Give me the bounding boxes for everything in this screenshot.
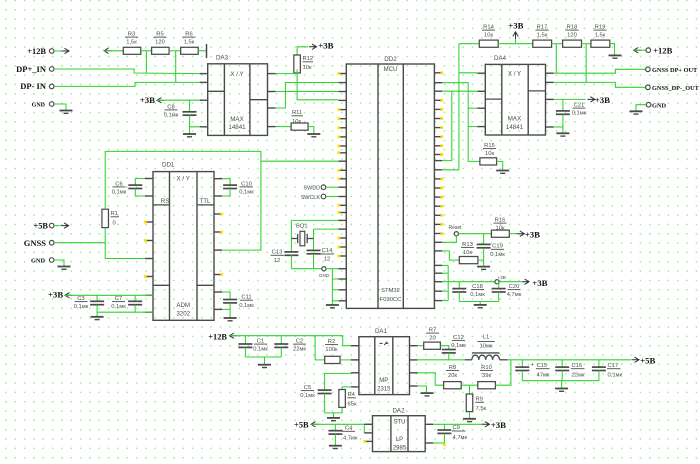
- wire reset to MCU: [442, 236, 456, 243]
- svg-text:+: +: [531, 363, 535, 369]
- capacitor C13: [271, 250, 299, 269]
- capacitor C12: [442, 335, 466, 360]
- svg-text:39к: 39к: [482, 373, 491, 379]
- svg-text:C20: C20: [509, 284, 520, 290]
- svg-text:12: 12: [274, 258, 280, 264]
- svg-text:L1: L1: [483, 335, 489, 341]
- svg-text:10к: 10к: [292, 119, 301, 125]
- svg-text:+5B: +5B: [294, 421, 309, 430]
- wire pin3 (SS) loop: [325, 373, 351, 390]
- power +3B (top): [498, 20, 533, 43]
- resistor R8: [444, 365, 462, 389]
- svg-text:0,1мк: 0,1мк: [300, 393, 315, 399]
- svg-text:SWCLK: SWCLK: [301, 195, 321, 201]
- wire cap bottom rail: [459, 302, 498, 305]
- resistor R16: [491, 218, 509, 238]
- svg-text:R6: R6: [185, 32, 192, 38]
- IC DA2 LP2985: [363, 407, 433, 451]
- capacitor C6: [112, 179, 145, 197]
- svg-text:GNSS: GNSS: [24, 238, 46, 248]
- capacitor C19: [477, 234, 506, 260]
- svg-text:C21: C21: [574, 103, 585, 109]
- wire R7 to C12: [440, 346, 448, 350]
- resistor R19: [591, 25, 610, 48]
- svg-text:C15: C15: [537, 363, 548, 369]
- svg-text:C9: C9: [453, 425, 460, 431]
- svg-text:10к: 10к: [303, 65, 312, 71]
- wire MCU to DA4 pin2 with branch: [442, 91, 477, 160]
- svg-text:GND: GND: [31, 258, 45, 265]
- svg-text:10к: 10к: [496, 226, 505, 232]
- svg-text:GND: GND: [319, 273, 330, 278]
- svg-text:MAX: MAX: [230, 116, 243, 123]
- wire DA3 pin4 to R11: [276, 126, 292, 128]
- capacitor C7: [111, 295, 142, 312]
- op-amp/IC DA3 MAX14841: [200, 55, 276, 136]
- wire DA4 pin to GNSS DP+ OUT: [554, 69, 646, 73]
- wire R11 to ground: [308, 127, 314, 134]
- svg-text:2315: 2315: [377, 387, 391, 393]
- svg-text:DP- IN: DP- IN: [20, 81, 47, 91]
- port GNSS DP+ OUT: [646, 67, 698, 74]
- port GND (top left): [32, 102, 73, 114]
- power +3B rail (C18/C20): [442, 278, 547, 288]
- svg-text:+3B: +3B: [508, 20, 523, 30]
- capacitor C15: [515, 360, 550, 381]
- junction drop to DP+ wire: [145, 51, 147, 73]
- svg-text:MAX: MAX: [508, 116, 521, 123]
- svg-text:DA3: DA3: [216, 55, 229, 62]
- svg-text:R13: R13: [462, 242, 473, 248]
- power +3B (R12): [297, 40, 334, 55]
- wire pin4 (EN) to R4: [342, 387, 351, 390]
- ground (C18/C20): [474, 305, 487, 308]
- port GND (left mid): [31, 258, 71, 270]
- svg-text:LP: LP: [396, 437, 403, 443]
- wire XTAL2: [314, 228, 339, 230]
- power +3B (reset): [509, 229, 540, 239]
- svg-text:+3B: +3B: [525, 229, 540, 239]
- port +12B (right): [634, 46, 673, 56]
- svg-text:+12B: +12B: [653, 46, 672, 56]
- power +3B (DA4): [554, 95, 611, 105]
- wire DA4 pin4: [554, 126, 563, 128]
- capacitor C10: [222, 179, 254, 196]
- ground (C1/C2): [258, 365, 271, 368]
- capacitor C21: [556, 99, 587, 132]
- svg-text:+12B: +12B: [208, 332, 227, 341]
- wire DA3 pin3 to MCU: [276, 83, 339, 109]
- wire bottom rail to DD1: [97, 311, 153, 313]
- port SWCLK: [301, 194, 339, 201]
- wire reset rail: [459, 233, 492, 235]
- svg-text:0,1мк: 0,1мк: [111, 304, 126, 310]
- wire DA1 pin4 to ground: [418, 386, 427, 393]
- wire MCU to DA4 pins 3,4 and R15: [442, 83, 480, 162]
- wire caps bottom rail (out): [522, 381, 599, 388]
- svg-text:R9: R9: [476, 397, 483, 403]
- svg-text:C12: C12: [453, 335, 464, 341]
- svg-text:C13: C13: [272, 250, 283, 256]
- svg-text:+5B: +5B: [33, 222, 48, 231]
- capacitor C2: [274, 336, 306, 357]
- svg-text:120: 120: [567, 33, 577, 39]
- wire DA1 pin3 (FB) to R8: [418, 373, 444, 385]
- svg-text:R5: R5: [156, 32, 163, 38]
- svg-text:R19: R19: [595, 25, 606, 31]
- svg-text:C2: C2: [296, 339, 303, 345]
- ground (R9): [463, 419, 476, 422]
- ground (C5/R4): [327, 418, 340, 421]
- svg-text:+3B: +3B: [595, 95, 610, 105]
- svg-text:4,7мк: 4,7мк: [507, 292, 522, 298]
- wire +3B rail to DA4 pin1: [442, 44, 477, 170]
- svg-text:10мк: 10мк: [480, 344, 493, 350]
- svg-text:+3B: +3B: [140, 95, 155, 105]
- power +3B (DD1): [48, 290, 153, 300]
- svg-text:DD1: DD1: [162, 162, 175, 169]
- capacitor C16: [555, 360, 585, 381]
- wire MCU gnd ladder (right): [442, 265, 448, 300]
- capacitor C5: [300, 385, 331, 413]
- svg-text:2985: 2985: [393, 446, 407, 452]
- svg-text:0,1мк: 0,1мк: [470, 292, 485, 298]
- resistor R4: [339, 390, 357, 408]
- wire R13 to ground: [478, 260, 484, 266]
- svg-text:X / Y: X / Y: [177, 176, 190, 183]
- port DP+_IN: [16, 64, 200, 74]
- svg-text:R1: R1: [111, 211, 118, 217]
- capacitor C8: [164, 100, 200, 133]
- capacitor C20: [492, 282, 522, 302]
- resistor R7: [424, 328, 441, 350]
- resistor R17: [533, 25, 552, 48]
- resistor R2: [325, 339, 340, 364]
- ground (DA1): [421, 393, 434, 396]
- svg-text:1,5к: 1,5к: [537, 33, 548, 39]
- svg-text:R11: R11: [292, 110, 302, 116]
- svg-text:R18: R18: [567, 25, 578, 31]
- svg-text:C8: C8: [167, 104, 174, 110]
- svg-text:R16: R16: [495, 218, 506, 224]
- svg-text:X / Y: X / Y: [230, 71, 243, 78]
- svg-text:1,5к: 1,5к: [595, 33, 606, 39]
- resistor R3: [123, 32, 141, 55]
- resistor R13: [459, 242, 478, 264]
- resistor R15: [480, 143, 497, 165]
- svg-text:+12B: +12B: [27, 47, 46, 56]
- wire DA4 pin to GNSS DP- OUT: [554, 82, 646, 87]
- svg-text:0,1мк: 0,1мк: [239, 190, 254, 196]
- svg-text:R7: R7: [429, 328, 436, 334]
- svg-text:65к: 65к: [348, 402, 357, 408]
- ground (R19): [609, 55, 622, 58]
- capacitor C9: [437, 424, 467, 443]
- svg-text:+3B: +3B: [48, 290, 63, 300]
- port Reset: [448, 225, 462, 236]
- wire R4/C5 bottom: [325, 407, 343, 417]
- svg-text:DA2: DA2: [392, 407, 405, 414]
- wire +5B branch to pin2: [364, 424, 372, 433]
- wire divider mid to R9: [469, 385, 471, 394]
- wire XTAL1: [291, 219, 338, 221]
- svg-text:R15: R15: [484, 143, 495, 149]
- svg-text:4,7мк: 4,7мк: [453, 435, 468, 441]
- crystal BQ1: [291, 220, 313, 252]
- wire branch to MCU pin: [261, 160, 339, 162]
- svg-text:C14: C14: [322, 248, 333, 254]
- svg-text:+3B: +3B: [498, 275, 506, 280]
- capacitor C18: [452, 282, 485, 302]
- capacitor C17: [592, 360, 623, 381]
- microcontroller DD2 STM32F030CC: [337, 56, 443, 308]
- svg-text:0,1мк: 0,1мк: [239, 303, 254, 309]
- junction drop to DP-out: [585, 44, 587, 83]
- svg-text:TTL: TTL: [200, 198, 212, 205]
- svg-text:20к: 20к: [448, 373, 457, 379]
- svg-text:SWDD: SWDD: [304, 186, 321, 192]
- ground (C21): [556, 133, 569, 136]
- wire R2 to DA1: [340, 359, 359, 361]
- svg-text:+3B: +3B: [491, 420, 506, 430]
- wire R5-R6: [169, 50, 181, 52]
- svg-text:47мк: 47мк: [537, 373, 550, 379]
- wire R8-R10: [461, 384, 478, 386]
- port GNSS: [24, 238, 105, 248]
- svg-text:0,1мк: 0,1мк: [490, 252, 505, 258]
- svg-text:R8: R8: [449, 365, 456, 371]
- svg-text:22мк: 22мк: [572, 373, 585, 379]
- wire caps bottom rail: [245, 357, 281, 364]
- ground (R11): [307, 134, 320, 137]
- svg-text:1,5к: 1,5к: [126, 40, 137, 46]
- capacitor C4: [328, 424, 358, 445]
- resistor R14: [479, 25, 498, 48]
- port +5B (bottom): [294, 421, 372, 430]
- svg-text:GND: GND: [652, 102, 666, 109]
- wire SW line and L1: [418, 359, 465, 361]
- ground (C4): [329, 446, 342, 449]
- svg-text:0,1мк: 0,1мк: [451, 343, 466, 349]
- svg-text:STM32: STM32: [381, 288, 400, 294]
- ground (R13): [477, 267, 490, 270]
- wire DA1 pin1 to R7: [418, 345, 424, 347]
- node +3B: [495, 275, 506, 284]
- svg-text:DA4: DA4: [494, 55, 507, 62]
- IC DA4 MAX14841: [477, 55, 553, 135]
- wire R19 to ground: [610, 44, 615, 55]
- svg-text:R3: R3: [128, 32, 135, 38]
- svg-text:C17: C17: [608, 363, 619, 369]
- svg-text:F030CC: F030CC: [380, 297, 402, 303]
- ground (C16): [555, 389, 568, 392]
- svg-text:7,5к: 7,5к: [476, 406, 487, 412]
- svg-text:GNSS_DP-_OUT: GNSS_DP-_OUT: [652, 85, 700, 92]
- svg-text:4,7мк: 4,7мк: [343, 435, 358, 441]
- wire DA2 pin2 to C9 bottom: [433, 443, 446, 446]
- svg-text:0,1мк: 0,1мк: [253, 347, 268, 353]
- svg-text:DA1: DA1: [375, 328, 388, 335]
- svg-text:C19: C19: [492, 244, 503, 250]
- svg-text:DP+_IN: DP+_IN: [16, 64, 47, 74]
- wire R1 top to DD1/MCU net: [105, 151, 261, 250]
- svg-text:C16: C16: [572, 363, 583, 369]
- svg-text:14841: 14841: [228, 124, 246, 131]
- svg-text:12: 12: [324, 257, 330, 263]
- svg-text:GND: GND: [32, 102, 46, 108]
- wire DA3 pin1 to R12/MCU: [276, 69, 339, 99]
- capacitor C1: [238, 336, 268, 357]
- svg-text:R4: R4: [348, 392, 356, 398]
- capacitor C11: [222, 292, 254, 318]
- svg-text:C7: C7: [115, 296, 122, 302]
- port +12B input: [27, 47, 69, 56]
- wire R1 bottom to GNSS to DD1: [105, 228, 145, 259]
- svg-text:C5: C5: [304, 385, 311, 391]
- resistor R9: [466, 394, 486, 412]
- svg-text:C18: C18: [472, 284, 483, 290]
- svg-text:+3B: +3B: [318, 40, 333, 50]
- port DP-_IN: [20, 81, 199, 91]
- IC DA1 MP2315: [351, 328, 418, 395]
- wire +12B to R2: [315, 336, 325, 360]
- svg-text:0,1мк: 0,1мк: [608, 373, 623, 379]
- svg-text:0,1мк: 0,1мк: [572, 111, 587, 117]
- port +5B (left): [33, 222, 68, 231]
- capacitor C3: [74, 295, 104, 312]
- svg-text:STU: STU: [394, 419, 406, 425]
- resistor R10: [478, 365, 496, 389]
- svg-text:10к: 10к: [484, 33, 493, 39]
- svg-text:RS: RS: [161, 198, 170, 205]
- IC DD1 ADM3202: [144, 162, 223, 321]
- wire R18-R19: [582, 43, 591, 45]
- wire L1 to +5B out: [508, 355, 656, 365]
- svg-text:+5B: +5B: [640, 355, 655, 365]
- svg-text:MP: MP: [379, 378, 388, 384]
- port GND (right): [630, 102, 667, 114]
- resistor R18: [563, 25, 582, 48]
- svg-text:0,1мк: 0,1мк: [164, 113, 179, 119]
- svg-text:22мк: 22мк: [293, 347, 306, 353]
- svg-text:C3: C3: [77, 296, 84, 302]
- svg-text:R12: R12: [303, 56, 314, 62]
- ground (MCU left): [326, 305, 339, 308]
- resistor R6: [181, 32, 199, 55]
- svg-text:MCU: MCU: [384, 67, 398, 73]
- net arrow (left, DP power): [104, 48, 123, 53]
- svg-text:120: 120: [155, 40, 165, 46]
- wire R10 to output node: [495, 360, 511, 385]
- svg-text:20: 20: [429, 336, 435, 342]
- svg-text:C4: C4: [345, 426, 353, 432]
- ground (R15): [496, 171, 509, 174]
- svg-text:14841: 14841: [506, 124, 524, 131]
- wire R17-R18: [552, 43, 563, 45]
- svg-text:0,1мк: 0,1мк: [112, 190, 127, 196]
- wire R6 to stub bar: [198, 44, 206, 58]
- wire MCU to R13: [442, 251, 459, 260]
- svg-text:1,5к: 1,5к: [184, 40, 195, 46]
- svg-text:ADM: ADM: [176, 302, 190, 309]
- wire DA2 out to +3B: [433, 420, 506, 430]
- svg-text:R10: R10: [481, 365, 492, 371]
- inductor L1: [465, 335, 508, 360]
- resistor R5: [152, 32, 170, 55]
- ground (C3): [91, 312, 104, 319]
- svg-text:C6: C6: [115, 181, 122, 187]
- capacitor C14: [307, 248, 335, 269]
- ground (C11): [224, 318, 237, 321]
- svg-text:C10: C10: [241, 181, 252, 187]
- resistor R11: [291, 110, 308, 130]
- svg-text:R14: R14: [483, 25, 494, 31]
- port +12B (bottom): [208, 332, 359, 345]
- svg-text:R17: R17: [537, 25, 548, 31]
- svg-text:10к: 10к: [463, 250, 472, 256]
- svg-text:0,1мк: 0,1мк: [74, 304, 89, 310]
- power +3B (DA3): [140, 95, 200, 105]
- svg-text:Reset: Reset: [448, 225, 462, 231]
- port GNSS_DP-_OUT: [646, 85, 700, 92]
- svg-text:BQ1: BQ1: [296, 224, 308, 230]
- wire R15 to ground: [497, 161, 503, 170]
- ground (C8): [183, 134, 196, 137]
- svg-text:C1: C1: [257, 339, 264, 345]
- wire rail left (R14): [459, 43, 479, 45]
- resistor R1: [102, 209, 119, 227]
- port SWDD: [304, 185, 339, 192]
- svg-text:GNSS DP+ OUT: GNSS DP+ OUT: [652, 67, 698, 74]
- wire R9 to ground: [469, 412, 471, 419]
- node GND (crystal rail): [291, 267, 338, 278]
- svg-text:C11: C11: [241, 295, 251, 301]
- svg-text:100к: 100к: [325, 347, 338, 353]
- svg-text:3202: 3202: [176, 311, 190, 318]
- svg-text:10к: 10к: [485, 151, 494, 157]
- resistor R12: [294, 55, 313, 73]
- junction drop to DP- wire: [175, 51, 177, 83]
- svg-text:0: 0: [113, 221, 116, 227]
- wire gnd ladder (MCU left bottom): [332, 269, 338, 305]
- svg-text:DD2: DD2: [384, 56, 397, 63]
- svg-text:+3B: +3B: [532, 278, 547, 288]
- svg-text:R2: R2: [328, 339, 335, 345]
- junction drop to DP+out: [555, 44, 557, 73]
- wire DA3 pin2 to MCU: [276, 91, 339, 93]
- wire R3-R5: [141, 50, 152, 52]
- svg-text:X / Y: X / Y: [508, 71, 521, 78]
